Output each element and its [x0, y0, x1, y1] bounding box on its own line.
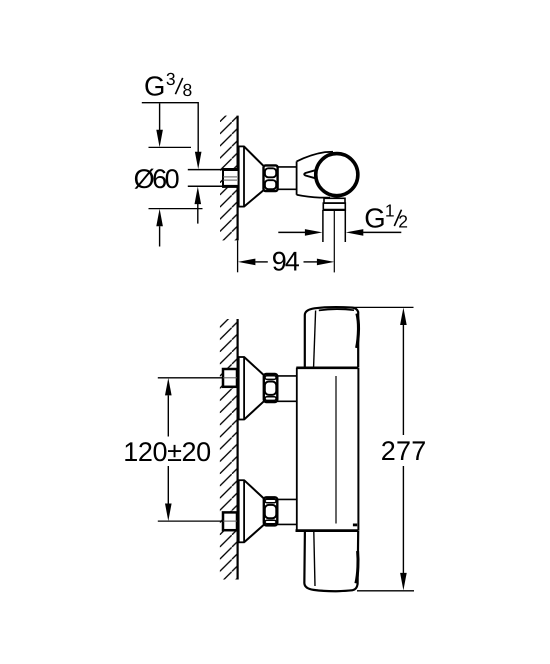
svg-text:G: G [364, 202, 385, 233]
dia60 arrow up [156, 209, 163, 227]
body center line [335, 376, 337, 524]
top knob cap seam [319, 309, 354, 310]
thermostat body (bottom view) [296, 368, 298, 531]
dimension 120+-20 [165, 378, 172, 396]
wall face line (bottom view) [237, 319, 239, 580]
leader line from G3/8 [142, 103, 198, 152]
top knob (bottom view) [305, 307, 358, 367]
top knob contour line [314, 311, 316, 367]
svg-text:Ø60: Ø60 [134, 164, 180, 194]
lower union sleeve [278, 498, 298, 500]
svg-text:3: 3 [166, 69, 176, 89]
svg-text:G: G [144, 71, 165, 102]
union nut (top view) [264, 165, 278, 191]
handle cap circle (top view) [316, 154, 358, 196]
bottom knob (bottom view) [304, 531, 358, 591]
outlet collar below circle [323, 198, 346, 210]
bottom knob cap seam [317, 590, 353, 591]
upper union sleeve [278, 375, 298, 377]
hose nipple (G1/2) [322, 210, 324, 242]
dimension 94 [238, 259, 256, 266]
union sleeve (top view) [278, 166, 297, 168]
supply pipe lines [188, 169, 223, 171]
dimension 277 [350, 306, 413, 308]
wall nipple (top view, bold, covers hatch) [223, 170, 238, 187]
svg-text:277: 277 [381, 436, 427, 466]
G3/8 arrow up to pipe bottom [195, 187, 202, 205]
svg-text:94: 94 [272, 247, 300, 277]
upper wall nipple (bold) [223, 369, 237, 387]
dia60 extension line bottom [149, 208, 203, 210]
valve body (top view) [297, 152, 333, 198]
G1/2 dimension arrows [278, 231, 305, 233]
top knob grip shading [357, 314, 359, 349]
dia60 extension line top [149, 146, 192, 148]
lower union nut (bottom view) [264, 497, 278, 525]
svg-text:120±20: 120±20 [123, 437, 211, 467]
upper escutcheon (bottom view) [238, 357, 264, 420]
small port tick bottom right of body [353, 524, 357, 527]
upper union nut (bottom view) [264, 374, 278, 402]
lower wall nipple (bold) [223, 512, 237, 530]
bottom knob grip shading [356, 551, 358, 583]
label G3/8 [144, 69, 192, 102]
wall face line (top view) [237, 116, 239, 241]
svg-text:2: 2 [398, 212, 408, 232]
label G1/2 [364, 200, 408, 233]
hose nipple center line [333, 210, 335, 272]
bottom knob contour line [314, 532, 315, 587]
G3/8 arrow down to pipe top [195, 152, 202, 170]
wall hatching (top view) [220, 116, 237, 241]
svg-text:1: 1 [385, 200, 395, 220]
escutcheon (top view) [238, 146, 264, 206]
wall face extension line down to 94 dim [237, 240, 239, 272]
upper extension line 120 dim [158, 377, 223, 379]
dia60 arrow down [159, 103, 161, 130]
wall hatching (bottom view) [220, 319, 237, 580]
lower extension line 120 dim [158, 520, 223, 522]
svg-text:8: 8 [183, 80, 193, 100]
pointer mark on body [304, 170, 315, 178]
lower escutcheon (bottom view) [238, 480, 264, 542]
